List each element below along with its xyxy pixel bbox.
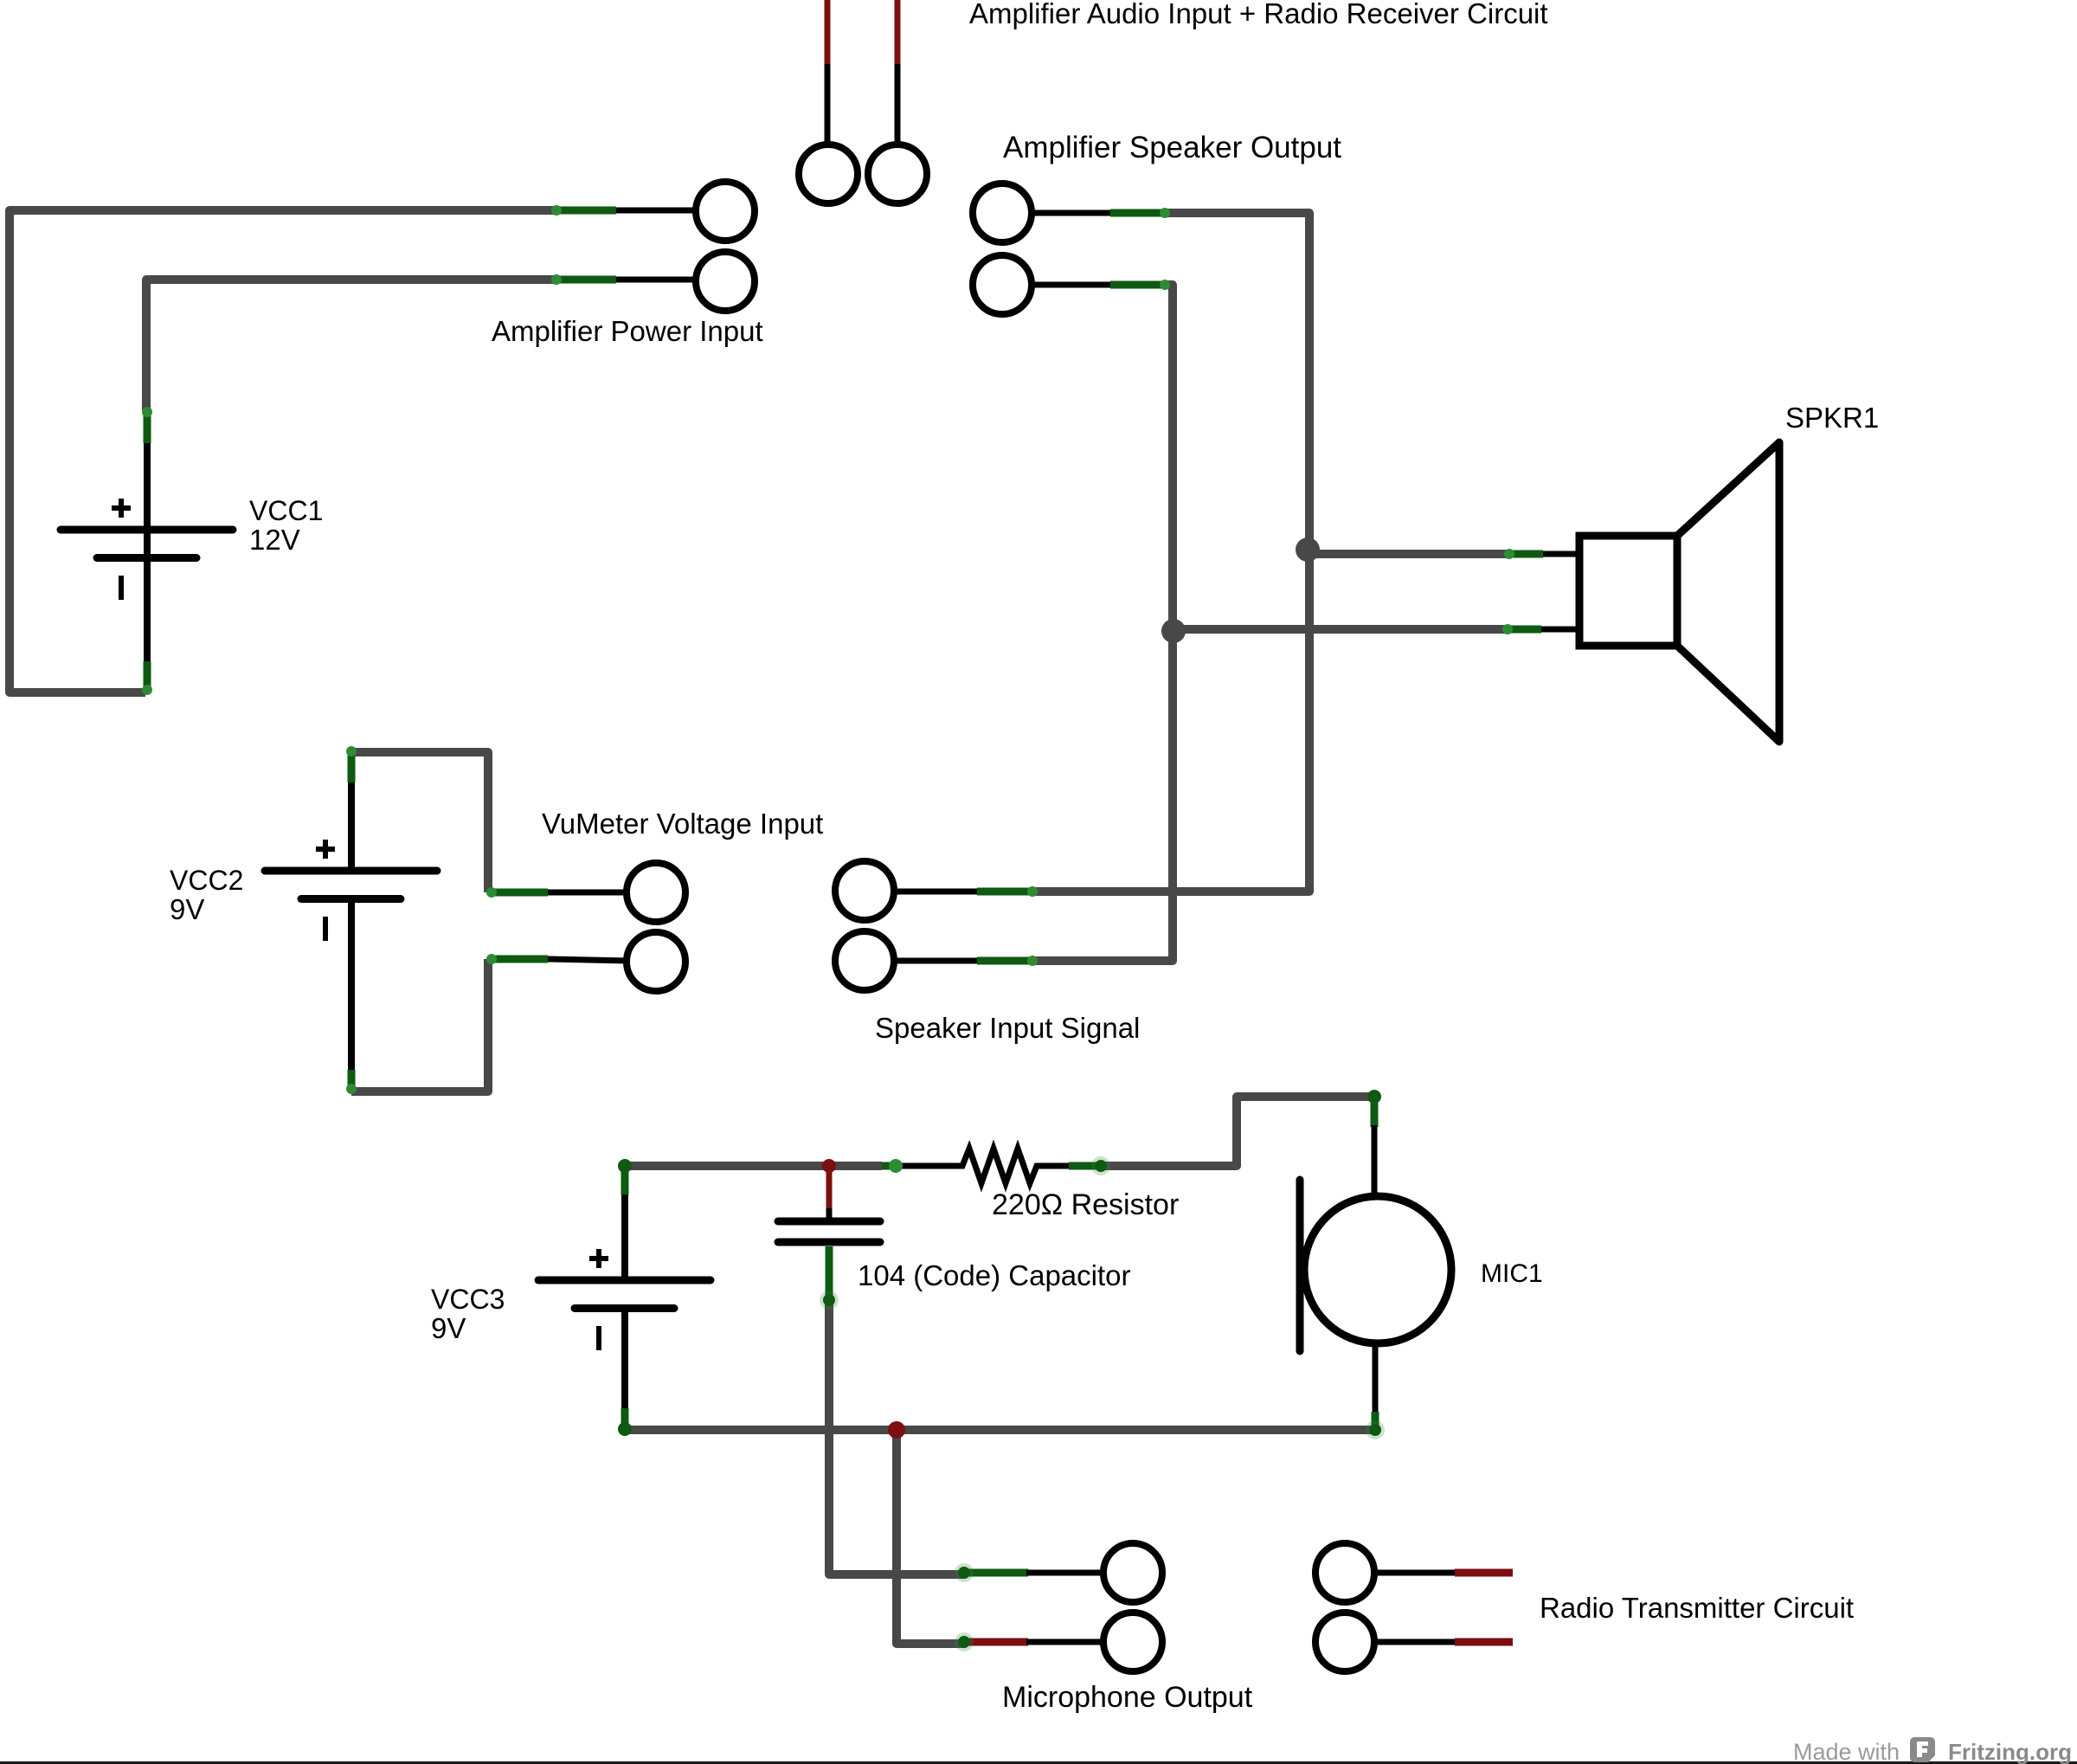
svg-text:VCC2: VCC2: [170, 865, 243, 896]
svg-text:9V: 9V: [431, 1312, 466, 1344]
svg-text:Radio Transmitter Circuit: Radio Transmitter Circuit: [1540, 1592, 1854, 1624]
svg-text:Made with: Made with: [1793, 1739, 1900, 1764]
svg-text:Fritzing.org: Fritzing.org: [1948, 1739, 2072, 1764]
svg-text:SPKR1: SPKR1: [1785, 402, 1879, 434]
svg-text:VCC3: VCC3: [431, 1284, 505, 1315]
svg-text:VuMeter Voltage Input: VuMeter Voltage Input: [542, 808, 823, 840]
svg-text:Speaker Input Signal: Speaker Input Signal: [875, 1012, 1140, 1044]
svg-text:VCC1: VCC1: [249, 495, 323, 526]
svg-text:220Ω Resistor: 220Ω Resistor: [992, 1188, 1179, 1221]
svg-text:9V: 9V: [170, 893, 204, 925]
svg-text:MIC1: MIC1: [1481, 1259, 1543, 1288]
svg-text:Microphone Output: Microphone Output: [1002, 1681, 1253, 1714]
svg-text:Amplifier Power Input: Amplifier Power Input: [492, 315, 763, 347]
svg-text:12V: 12V: [249, 524, 300, 556]
svg-text:104 (Code) Capacitor: 104 (Code) Capacitor: [858, 1259, 1131, 1291]
svg-text:Amplifier Speaker Output: Amplifier Speaker Output: [1003, 131, 1341, 164]
svg-text:Amplifier Audio Input + Radio: Amplifier Audio Input + Radio Receiver C…: [969, 0, 1548, 29]
